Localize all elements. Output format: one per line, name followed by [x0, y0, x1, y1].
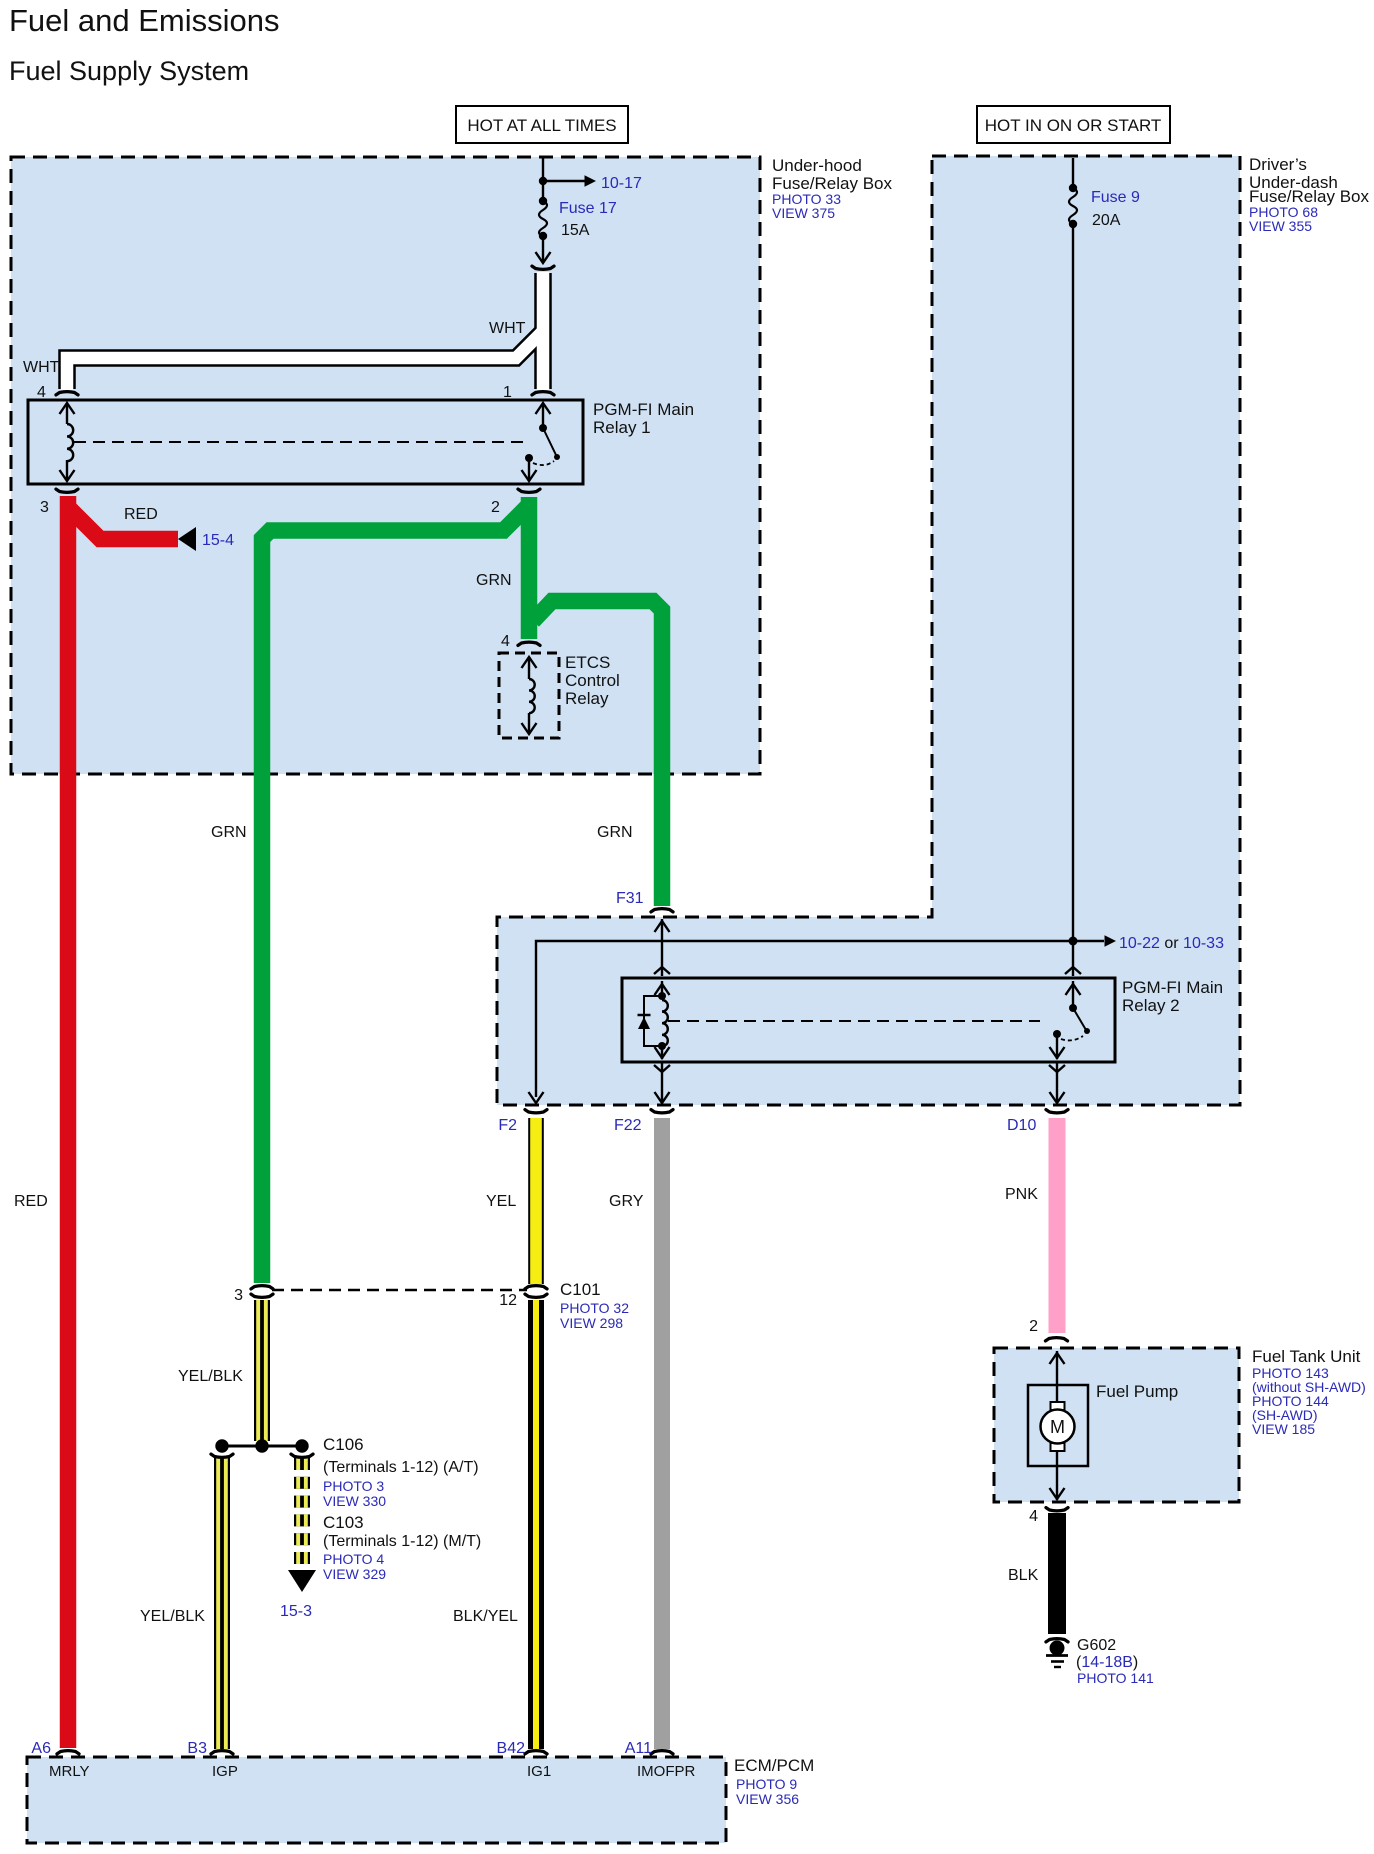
relay 2 coil — [662, 1000, 668, 1046]
label IG1 — [527, 1763, 551, 1780]
svg-text:2: 2 — [1029, 1318, 1038, 1335]
wire GRN branch right down to F31 — [533, 601, 662, 906]
note C101 — [560, 1280, 629, 1331]
label 15-4 — [202, 532, 234, 549]
svg-text:IMOFPR: IMOFPR — [637, 1763, 695, 1780]
label pin 3 C101 — [234, 1287, 243, 1304]
svg-text:Fuse 17: Fuse 17 — [559, 200, 617, 217]
Driver's Under-dash Fuse/Relay Box (L-shaped dashed blue box) — [497, 156, 1240, 1105]
relay 2 switch contact — [1053, 1030, 1083, 1040]
terminal cap relay1 pin 3 — [56, 489, 78, 492]
wire PNK (D10 to fuel tank pin 2) — [1049, 1118, 1066, 1333]
label BLK — [1008, 1567, 1039, 1584]
label YEL/BLK lower — [140, 1608, 205, 1625]
label 10-22 or 10-33 — [1119, 935, 1224, 952]
wire YEL/BLK dashed (junction to 15-3) — [294, 1458, 310, 1564]
svg-text:IG1: IG1 — [527, 1763, 551, 1780]
svg-text:PHOTO 141: PHOTO 141 — [1077, 1670, 1154, 1686]
relay 1 switch pin 1 line — [536, 403, 551, 432]
wire RED vertical (relay1 pin 3 to ECM A6) — [60, 496, 77, 1748]
relay 1 switch contact — [525, 454, 554, 465]
wire D10 from relay 2 to box edge — [1049, 1062, 1065, 1103]
svg-text:VIEW 355: VIEW 355 — [1249, 218, 1312, 234]
label YEL/BLK upper — [178, 1368, 243, 1385]
svg-text:PGM-FI Main: PGM-FI Main — [593, 400, 694, 419]
svg-text:ETCS: ETCS — [565, 653, 610, 672]
svg-text:1: 1 — [503, 384, 512, 401]
svg-text:VIEW 356: VIEW 356 — [736, 1791, 799, 1807]
terminal cap fuel tank pin 2 — [1046, 1338, 1068, 1341]
label B3 — [187, 1740, 207, 1757]
terminal cap D10 — [1046, 1110, 1068, 1113]
svg-text:RED: RED — [14, 1193, 48, 1210]
wire GRY (F22 to ECM A11) — [654, 1118, 670, 1749]
svg-text:4: 4 — [1029, 1508, 1038, 1525]
terminal cap fuel tank pin 4 — [1046, 1508, 1068, 1511]
connector C101 dashed line — [272, 1289, 527, 1291]
relay box: PGM-FI Main Relay 2 — [622, 978, 1115, 1062]
label D10 — [1007, 1117, 1036, 1134]
label YEL — [486, 1193, 516, 1210]
svg-text:HOT IN ON OR START: HOT IN ON OR START — [985, 116, 1162, 135]
svg-text:C103: C103 — [323, 1513, 364, 1532]
fuse F9 symbol — [1069, 184, 1077, 228]
svg-text:VIEW 298: VIEW 298 — [560, 1315, 623, 1331]
svg-text:GRN: GRN — [597, 824, 633, 841]
relay 2 switch arm — [1073, 1008, 1090, 1034]
terminal cap top of WHT wire — [532, 266, 554, 269]
wire YEL/BLK (junction to ECM B3) — [214, 1457, 230, 1749]
terminal cap C101 pin 3 bottom — [251, 1294, 273, 1297]
svg-text:A11: A11 — [625, 1740, 652, 1757]
label pin 2 — [491, 499, 500, 516]
label F2 — [498, 1117, 517, 1134]
svg-text:Fuse 9: Fuse 9 — [1091, 189, 1140, 206]
HOT IN ON OR START header box — [977, 106, 1170, 143]
wire WHT casing (vertical from fuse 17 to relay1 pin 1) — [534, 273, 552, 389]
arrow to 10-17 — [585, 175, 597, 187]
relay 1 switch output line to pin 2 — [522, 459, 537, 481]
svg-text:M: M — [1050, 1417, 1065, 1437]
label pin 1 — [503, 384, 512, 401]
Under-hood Fuse/Relay Box (dashed blue box) — [11, 157, 760, 774]
svg-text:GRN: GRN — [476, 572, 512, 589]
label WHT right — [489, 320, 526, 337]
junction bar C106 — [215, 1439, 308, 1452]
fuel pump motor M — [1041, 1385, 1075, 1466]
label pin 2 fuel tank — [1029, 1318, 1038, 1335]
relay 1 switch arm — [543, 428, 560, 460]
relay 1 coil — [67, 424, 73, 461]
svg-text:(Terminals 1-12) (A/T): (Terminals 1-12) (A/T) — [323, 1459, 479, 1476]
svg-text:3: 3 — [40, 499, 49, 516]
label B42 — [497, 1740, 526, 1757]
relay 2 coil pin line — [655, 981, 670, 1000]
terminal cap F31 — [651, 909, 673, 912]
Fuel Tank Unit (dashed blue box) — [994, 1348, 1239, 1502]
svg-text:Fuel Pump: Fuel Pump — [1096, 1382, 1178, 1401]
svg-text:(Terminals 1-12) (M/T): (Terminals 1-12) (M/T) — [323, 1533, 481, 1550]
wire WHT white core vertical — [537, 272, 550, 390]
note PGM-FI Main Relay 1 — [593, 400, 694, 437]
terminal cap ECM A6 — [57, 1751, 79, 1754]
terminal cap ETCS pin 4 — [518, 642, 540, 645]
svg-text:20A: 20A — [1092, 212, 1121, 229]
terminal cap relay1 pin 4 — [56, 392, 78, 395]
terminal cap C101 pin 3 top — [251, 1286, 273, 1289]
label 15-3 — [280, 1603, 312, 1620]
svg-text:PHOTO 4: PHOTO 4 — [323, 1551, 384, 1567]
node junction above Fuse 17 — [539, 177, 547, 185]
svg-text:WHT: WHT — [489, 320, 526, 337]
svg-text:WHT: WHT — [23, 359, 60, 376]
svg-text:15-4: 15-4 — [202, 532, 234, 549]
label pin 12 C101 — [499, 1292, 517, 1309]
svg-text:YEL/BLK: YEL/BLK — [140, 1608, 205, 1625]
svg-text:Fuel Supply System: Fuel Supply System — [9, 56, 249, 86]
wire BLK (fuel tank pin 4 to G602) — [1048, 1513, 1066, 1634]
wire WHT white core branch — [67, 331, 543, 390]
label A11 — [625, 1740, 652, 1757]
svg-text:Control: Control — [565, 671, 620, 690]
wire GRN branch left down to C101 pin 3 — [262, 505, 529, 1283]
svg-text:F2: F2 — [498, 1117, 517, 1134]
svg-text:G602: G602 — [1077, 1637, 1116, 1654]
fuel tank unit inner wire top — [1050, 1351, 1065, 1385]
label GRN left — [211, 824, 247, 841]
label Fuel Pump — [1096, 1382, 1178, 1401]
svg-text:B42: B42 — [497, 1740, 526, 1757]
terminal cap C106 right branch — [291, 1454, 313, 1457]
svg-text:IGP: IGP — [212, 1763, 238, 1780]
svg-text:Relay 2: Relay 2 — [1122, 996, 1180, 1015]
svg-text:Fuel and Emissions: Fuel and Emissions — [9, 3, 280, 38]
svg-text:Under-hood: Under-hood — [772, 156, 862, 175]
wire below fuse 17 — [536, 236, 551, 263]
svg-text:Driver’s: Driver’s — [1249, 155, 1307, 174]
svg-text:F22: F22 — [614, 1117, 642, 1134]
note Fuel Tank Unit — [1252, 1347, 1366, 1437]
svg-text:PHOTO 3: PHOTO 3 — [323, 1478, 384, 1494]
label Fuse 17 — [559, 200, 617, 217]
terminal cap ECM B3 — [211, 1751, 233, 1754]
note Driver's Under-dash Fuse/Relay Box — [1249, 155, 1369, 234]
wire from fuse 9 down to relay 2 — [1072, 224, 1074, 976]
relay 2 switch pin line from top — [1066, 981, 1081, 1012]
svg-text:VIEW 330: VIEW 330 — [323, 1493, 386, 1509]
fuse F17 symbol — [539, 197, 547, 240]
ETCS relay coil line — [522, 657, 537, 734]
svg-text:PHOTO 32: PHOTO 32 — [560, 1300, 629, 1316]
svg-text:C106: C106 — [323, 1435, 364, 1454]
svg-text:12: 12 — [499, 1292, 517, 1309]
svg-text:Fuel Tank Unit: Fuel Tank Unit — [1252, 1347, 1361, 1366]
relay 1 coil pin line (pins 4-3) — [60, 403, 75, 481]
svg-text:15A: 15A — [561, 222, 590, 239]
svg-text:3: 3 — [234, 1287, 243, 1304]
terminal cap C101 pin 12 bottom — [525, 1294, 547, 1297]
svg-text:10-22 or 10-33: 10-22 or 10-33 — [1119, 935, 1224, 952]
label pin 3 — [40, 499, 49, 516]
svg-text:2: 2 — [491, 499, 500, 516]
ETCS relay coil — [529, 679, 535, 713]
label BLK/YEL — [453, 1608, 518, 1625]
terminal cap C101 pin 12 top — [525, 1286, 547, 1289]
label RED top — [124, 506, 158, 523]
wire F31 to relay 2 — [654, 919, 670, 976]
fuel tank unit inner wire bottom — [1050, 1466, 1065, 1500]
wire from box top to fuse 17 — [542, 158, 544, 201]
terminal cap relay1 pin 2 — [518, 489, 540, 492]
svg-text:YEL/BLK: YEL/BLK — [178, 1368, 243, 1385]
label pin 4 — [37, 384, 46, 401]
note G602 — [1076, 1637, 1154, 1686]
svg-text:PGM-FI Main: PGM-FI Main — [1122, 978, 1223, 997]
svg-text:VIEW 329: VIEW 329 — [323, 1566, 386, 1582]
label 20A — [1092, 212, 1121, 229]
svg-text:HOT AT ALL TIMES: HOT AT ALL TIMES — [467, 116, 616, 135]
note ETCS Control Relay — [565, 653, 620, 708]
arrow to 10-22 or 10-33 — [1105, 935, 1117, 947]
arrow 15-3 — [288, 1570, 316, 1592]
terminal cap ECM A11 — [651, 1751, 673, 1754]
note Under-hood Fuse/Relay Box — [772, 156, 892, 221]
svg-text:D10: D10 — [1007, 1117, 1036, 1134]
svg-text:10-17: 10-17 — [601, 175, 642, 192]
note PGM-FI Main Relay 2 — [1122, 978, 1223, 1015]
terminal cap ECM B42 — [525, 1751, 547, 1754]
label 10-17 — [601, 175, 642, 192]
svg-text:BLK/YEL: BLK/YEL — [453, 1608, 518, 1625]
svg-text:4: 4 — [37, 384, 46, 401]
wire YEL (F2 to C101 pin 12) — [528, 1118, 544, 1284]
svg-text:4: 4 — [501, 633, 510, 650]
wire RED branch to 15-4 — [68, 507, 178, 539]
node junction on fuse 9 wire — [1069, 937, 1078, 946]
label pin 4 fuel tank — [1029, 1508, 1038, 1525]
label GRN mid — [476, 572, 512, 589]
arrow at F2 box edge — [529, 1092, 544, 1103]
svg-text:BLK: BLK — [1008, 1567, 1039, 1584]
terminal cap F2 — [525, 1110, 547, 1113]
arrow 15-4 — [178, 527, 196, 551]
svg-text:F31: F31 — [616, 890, 644, 907]
ground G602 — [1046, 1641, 1068, 1668]
wire branch to 10-17 — [543, 180, 585, 182]
wire 10-22 horizontal with corner down to F2 — [536, 941, 1104, 1097]
wire GRN from relay1 pin 2 to ETCS pin 4 — [521, 497, 538, 639]
note C106 / C103 — [323, 1435, 481, 1582]
svg-text:PHOTO 9: PHOTO 9 — [736, 1776, 797, 1792]
relay 2 clamp diode branch — [638, 996, 663, 1046]
fuel pump box — [1028, 1385, 1088, 1466]
wire F22 from relay 2 to box edge — [654, 1062, 670, 1103]
chevron on fuse9 wire above relay 2 — [1065, 967, 1081, 974]
label GRY — [609, 1193, 644, 1210]
svg-text:B3: B3 — [187, 1740, 207, 1757]
terminal cap at G602 — [1046, 1639, 1068, 1642]
wire YEL/BLK (C101 pin 3 to junction) — [254, 1300, 270, 1441]
svg-text:MRLY: MRLY — [49, 1763, 90, 1780]
svg-text:C101: C101 — [560, 1280, 601, 1299]
relay 2 switch output to D10 — [1050, 1036, 1065, 1059]
terminal cap F22 — [651, 1110, 673, 1113]
terminal cap C106 left branch — [211, 1454, 233, 1457]
relay 2 coil bottom node — [655, 1042, 670, 1059]
svg-text:Relay 1: Relay 1 — [593, 418, 651, 437]
label 15A — [561, 222, 590, 239]
svg-text:VIEW 375: VIEW 375 — [772, 205, 835, 221]
wire from box top to fuse 9 — [1072, 158, 1074, 188]
HOT AT ALL TIMES header box — [456, 106, 628, 143]
svg-text:YEL: YEL — [486, 1193, 516, 1210]
label WHT left — [23, 359, 60, 376]
label GRN right — [597, 824, 633, 841]
relay 1 internal dashed link — [74, 441, 524, 443]
svg-text:PNK: PNK — [1005, 1186, 1038, 1203]
wire BLK/YEL (C101 pin 12 to ECM B42) — [528, 1300, 544, 1749]
label F22 — [614, 1117, 642, 1134]
svg-text:Relay: Relay — [565, 689, 609, 708]
label PNK — [1005, 1186, 1038, 1203]
relay box: PGM-FI Main Relay 1 — [28, 400, 583, 484]
svg-text:VIEW 185: VIEW 185 — [1252, 1421, 1315, 1437]
label pin 4 ETCS — [501, 633, 510, 650]
label F31 — [616, 890, 644, 907]
ECM/PCM (dashed blue box) — [27, 1757, 726, 1843]
wire WHT casing (branch to relay1 pin 4) — [67, 331, 543, 389]
note ECM/PCM — [734, 1756, 814, 1807]
label IMOFPR — [637, 1763, 695, 1780]
label RED left edge — [14, 1193, 48, 1210]
svg-text:15-3: 15-3 — [280, 1603, 312, 1620]
label Fuse 9 — [1091, 189, 1140, 206]
svg-text:A6: A6 — [31, 1740, 51, 1757]
label IGP — [212, 1763, 238, 1780]
ETCS Control Relay dashed box — [499, 653, 559, 738]
svg-text:ECM/PCM: ECM/PCM — [734, 1756, 814, 1775]
svg-text:GRN: GRN — [211, 824, 247, 841]
svg-text:(14-18B): (14-18B) — [1076, 1654, 1138, 1671]
svg-text:RED: RED — [124, 506, 158, 523]
label A6 — [31, 1740, 51, 1757]
relay 2 internal dashed link — [668, 1020, 1040, 1022]
svg-text:GRY: GRY — [609, 1193, 644, 1210]
label MRLY — [49, 1763, 90, 1780]
terminal cap relay1 pin 1 — [532, 392, 554, 395]
